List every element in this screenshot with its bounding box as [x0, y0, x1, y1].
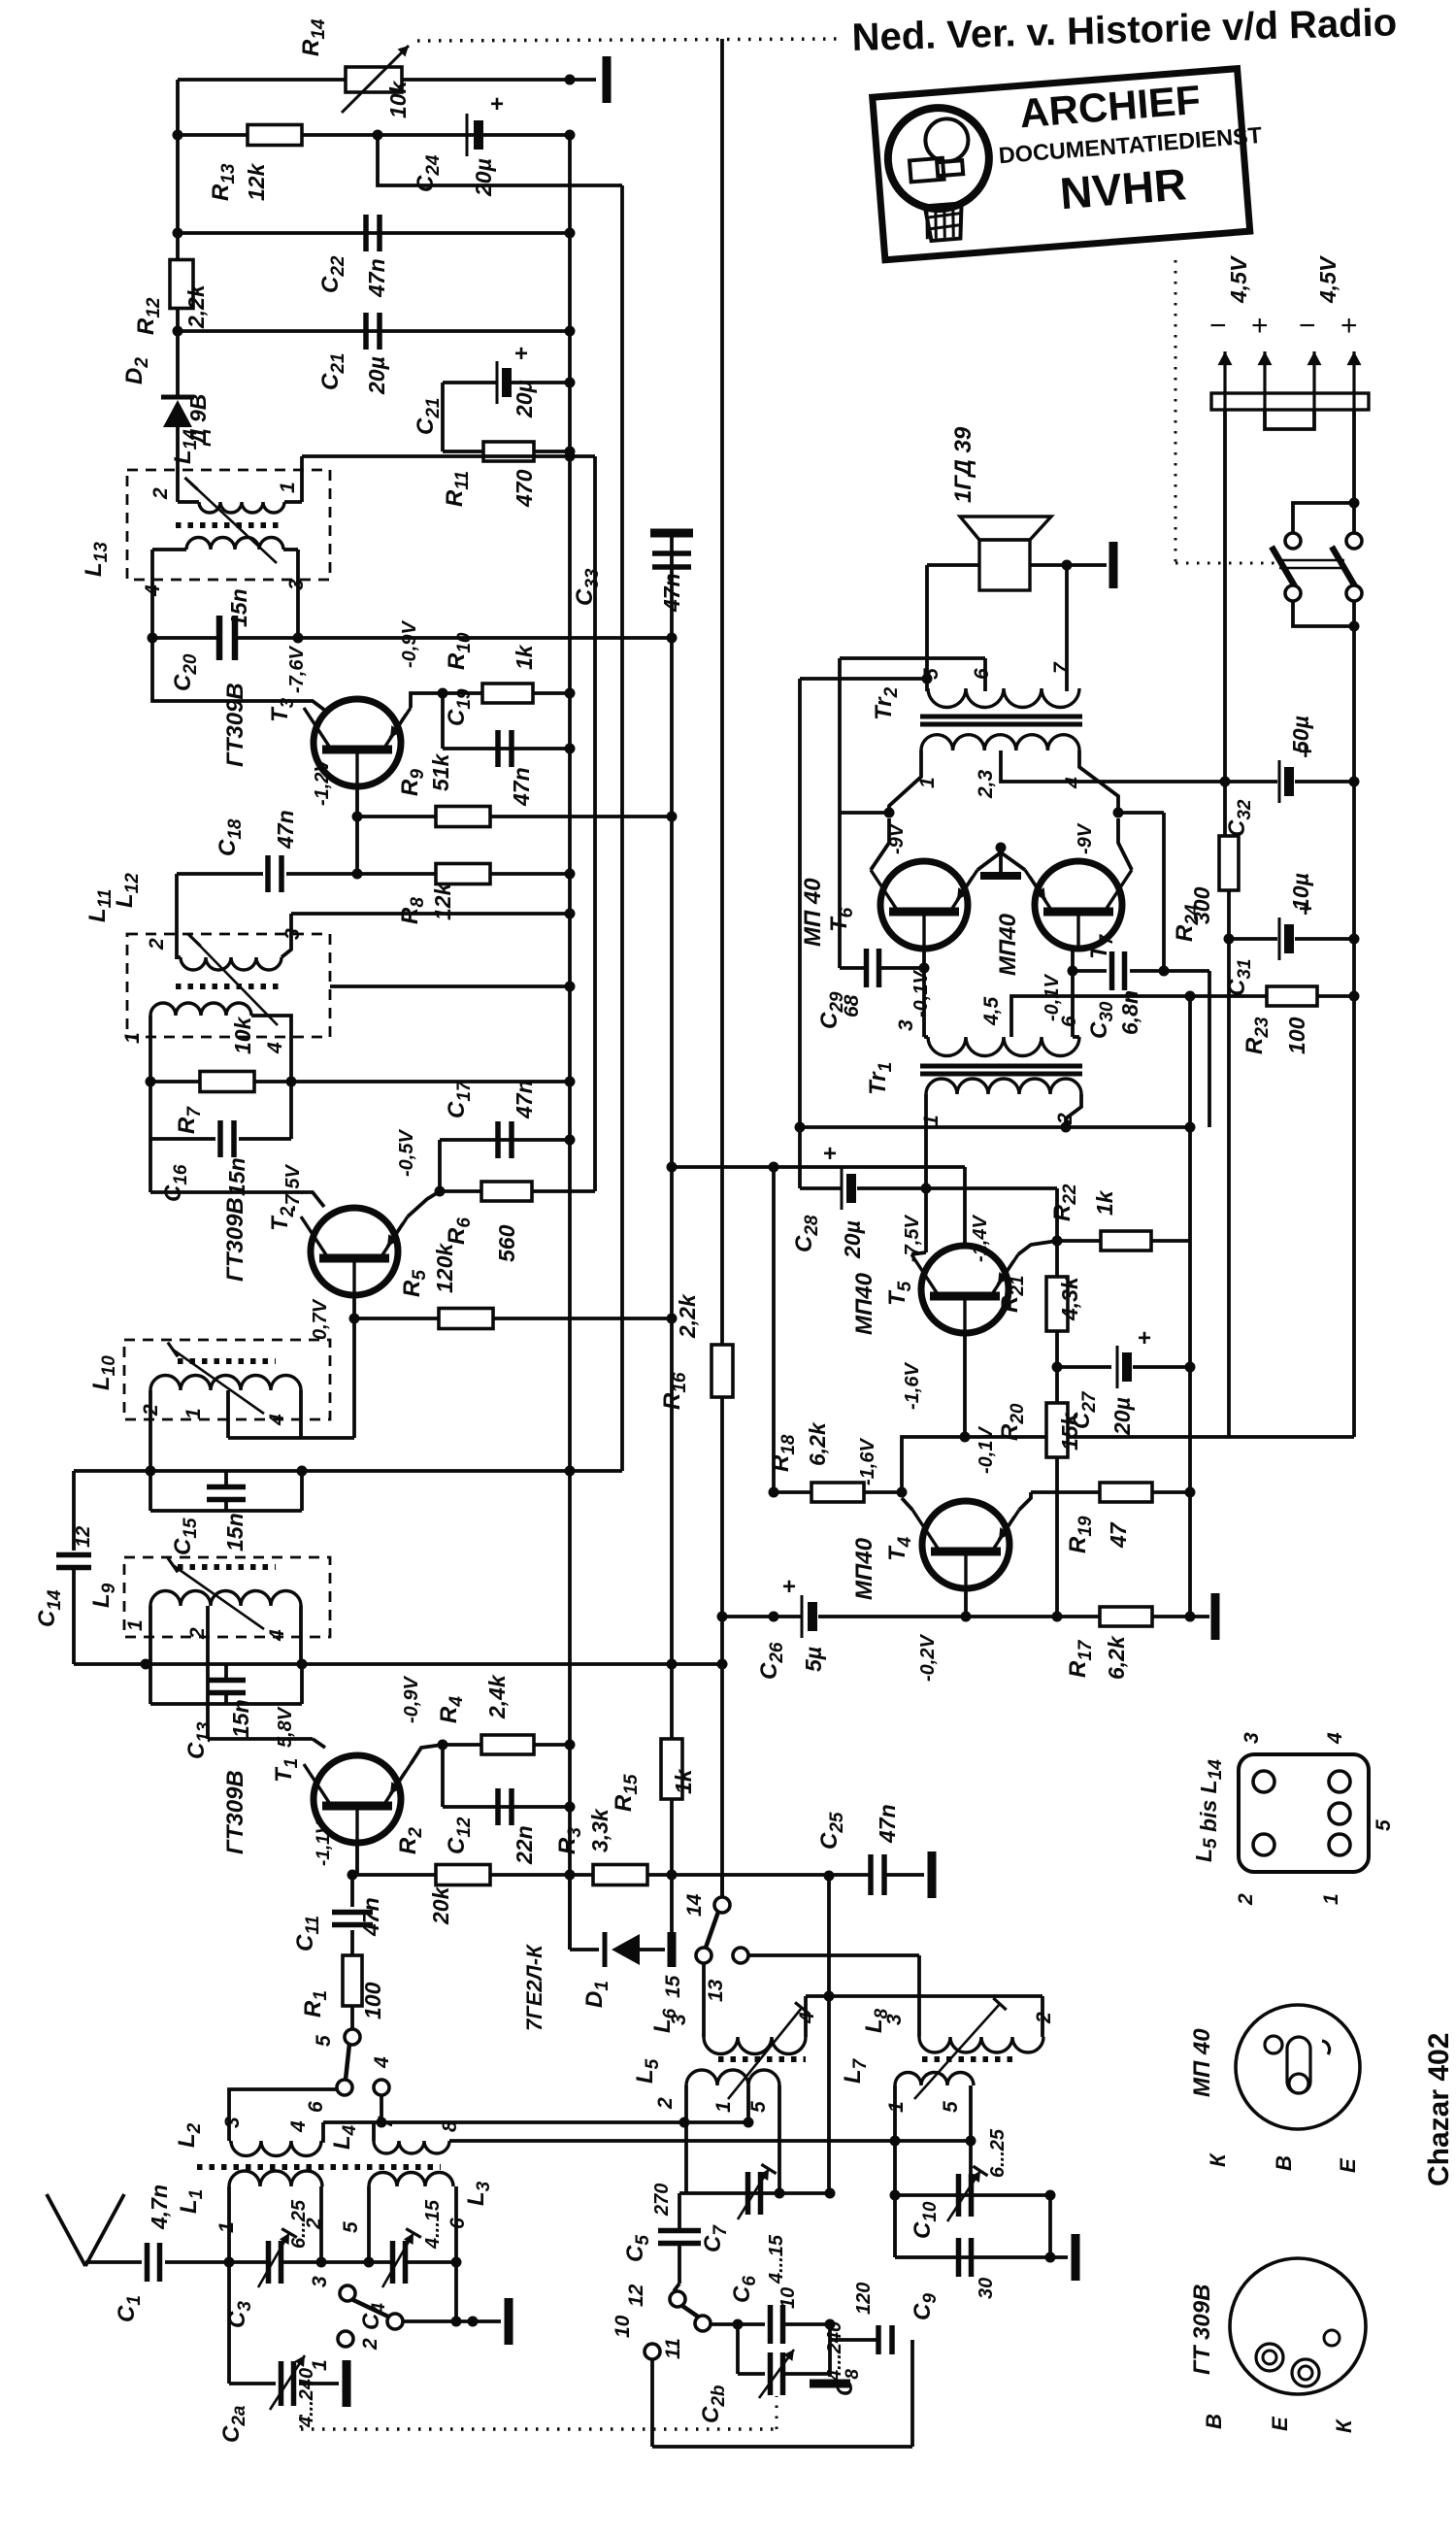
- svg-text:-0,9V: -0,9V: [401, 1676, 422, 1723]
- svg-text:+: +: [490, 91, 504, 117]
- svg-text:МП 40: МП 40: [1189, 2028, 1215, 2097]
- svg-text:4,5V: 4,5V: [1226, 255, 1251, 304]
- svg-text:300: 300: [1189, 886, 1214, 924]
- svg-text:2: 2: [1235, 1893, 1257, 1906]
- svg-text:4: 4: [266, 1629, 288, 1642]
- svg-text:7: 7: [1050, 661, 1073, 674]
- svg-text:5: 5: [747, 2101, 770, 2113]
- svg-text:6...25: 6...25: [987, 2128, 1009, 2178]
- svg-text:+: +: [514, 341, 528, 367]
- svg-text:51k: 51k: [428, 752, 453, 791]
- svg-text:-0,9V: -0,9V: [399, 620, 420, 668]
- svg-text:В: В: [1202, 2414, 1226, 2429]
- svg-text:2: 2: [654, 2097, 677, 2110]
- svg-text:4,5: 4,5: [980, 996, 1003, 1026]
- svg-text:К: К: [1332, 2418, 1356, 2433]
- svg-text:3: 3: [221, 2117, 244, 2128]
- svg-text:2: 2: [186, 1627, 209, 1640]
- svg-text:-0,1V: -0,1V: [976, 1426, 997, 1474]
- svg-text:6: 6: [1058, 1016, 1080, 1027]
- svg-text:-9V: -9V: [1075, 822, 1096, 854]
- svg-text:+: +: [1340, 310, 1358, 342]
- svg-text:4: 4: [1324, 1732, 1346, 1745]
- svg-text:20k: 20k: [428, 1885, 453, 1925]
- svg-text:1: 1: [712, 2101, 735, 2113]
- svg-text:2: 2: [146, 938, 168, 951]
- svg-text:ГТ309В: ГТ309В: [222, 683, 248, 767]
- svg-text:15n: 15n: [228, 1699, 253, 1738]
- svg-text:100: 100: [1284, 1017, 1309, 1054]
- svg-text:4: 4: [371, 2056, 393, 2069]
- svg-text:3: 3: [668, 2014, 690, 2025]
- svg-text:10: 10: [778, 2287, 799, 2309]
- svg-text:ГТ309В: ГТ309В: [222, 1770, 248, 1854]
- svg-text:4...15: 4...15: [766, 2234, 787, 2285]
- svg-text:6,2k: 6,2k: [805, 1421, 830, 1466]
- svg-text:4,3k: 4,3k: [1057, 1276, 1082, 1321]
- svg-text:3: 3: [281, 928, 304, 940]
- svg-text:3: 3: [895, 1019, 917, 1031]
- svg-text:NVHR: NVHR: [1058, 158, 1188, 218]
- svg-text:1ГД 39: 1ГД 39: [950, 426, 976, 503]
- svg-text:47: 47: [1106, 1521, 1131, 1549]
- svg-text:20µ: 20µ: [471, 158, 496, 197]
- svg-text:4...15: 4...15: [422, 2199, 444, 2250]
- svg-text:ГТ 309В: ГТ 309В: [1189, 2285, 1215, 2375]
- svg-text:20µ: 20µ: [512, 380, 537, 418]
- svg-text:4: 4: [264, 1042, 286, 1054]
- svg-text:560: 560: [494, 1224, 519, 1262]
- svg-text:4,7n: 4,7n: [147, 2185, 172, 2230]
- svg-text:1k: 1k: [512, 644, 537, 670]
- svg-text:7ГЕ2Л-К: 7ГЕ2Л-К: [522, 1944, 546, 2031]
- svg-text:-7,6V: -7,6V: [286, 646, 308, 693]
- svg-text:10: 10: [612, 2315, 634, 2338]
- svg-text:22n: 22n: [512, 1825, 537, 1865]
- svg-text:МП 40: МП 40: [800, 878, 826, 947]
- svg-text:-0,2V: -0,2V: [917, 1634, 939, 1682]
- svg-text:4: 4: [142, 584, 164, 597]
- svg-text:4: 4: [266, 1414, 288, 1426]
- svg-text:−: −: [1299, 310, 1316, 342]
- svg-text:1: 1: [121, 1032, 144, 1044]
- svg-text:20µ: 20µ: [1109, 1397, 1135, 1436]
- svg-text:1: 1: [182, 1408, 205, 1419]
- svg-text:47n: 47n: [659, 573, 684, 613]
- svg-text:12: 12: [73, 1526, 94, 1548]
- svg-text:-1,1V: -1,1V: [314, 1820, 334, 1866]
- svg-text:1: 1: [215, 2221, 238, 2233]
- svg-text:6: 6: [305, 2101, 327, 2113]
- svg-text:-0,1V: -0,1V: [910, 970, 932, 1017]
- svg-text:К: К: [1206, 2152, 1230, 2167]
- svg-text:+: +: [782, 1574, 796, 1600]
- svg-text:270: 270: [651, 2184, 673, 2217]
- svg-text:47n: 47n: [358, 1897, 383, 1937]
- svg-text:2,2k: 2,2k: [183, 284, 209, 329]
- svg-text:47n: 47n: [875, 1804, 900, 1844]
- svg-text:47n: 47n: [273, 810, 298, 850]
- svg-text:-1,6V: -1,6V: [857, 1438, 878, 1485]
- svg-text:6...25: 6...25: [288, 2199, 310, 2249]
- svg-text:10k: 10k: [385, 80, 411, 118]
- svg-text:-1,2V: -1,2V: [312, 758, 333, 806]
- svg-text:20µ: 20µ: [364, 356, 389, 395]
- svg-text:10µ: 10µ: [1288, 873, 1313, 911]
- svg-text:3: 3: [883, 2014, 906, 2025]
- svg-text:5: 5: [920, 668, 943, 680]
- svg-text:5: 5: [340, 2221, 362, 2233]
- svg-text:2,2k: 2,2k: [675, 1293, 700, 1339]
- svg-text:2,4k: 2,4k: [484, 1674, 510, 1719]
- svg-text:10k: 10k: [230, 1016, 255, 1054]
- svg-text:3: 3: [285, 579, 308, 590]
- svg-text:15n: 15n: [222, 1513, 248, 1551]
- svg-text:15: 15: [662, 1975, 684, 1998]
- svg-text:15n: 15n: [226, 588, 251, 627]
- svg-text:4...240: 4...240: [296, 2368, 317, 2428]
- svg-text:5: 5: [1373, 1819, 1395, 1831]
- svg-text:Е: Е: [1336, 2157, 1360, 2173]
- svg-text:МП40: МП40: [995, 913, 1021, 976]
- svg-text:120k: 120k: [432, 1243, 457, 1293]
- svg-text:2: 2: [149, 487, 172, 500]
- svg-text:1: 1: [124, 1619, 147, 1631]
- svg-text:6,2k: 6,2k: [1104, 1635, 1129, 1680]
- svg-text:4,5V: 4,5V: [1315, 255, 1340, 304]
- svg-text:1k: 1k: [1092, 1189, 1117, 1216]
- svg-text:12: 12: [625, 2284, 647, 2307]
- svg-text:100: 100: [360, 1982, 385, 2019]
- svg-text:−: −: [1209, 310, 1227, 342]
- svg-text:5µ: 5µ: [801, 1647, 826, 1672]
- svg-text:13: 13: [705, 1979, 727, 2002]
- svg-text:-0,5V: -0,5V: [396, 1129, 417, 1177]
- svg-text:20µ: 20µ: [840, 1220, 865, 1259]
- svg-text:+: +: [1251, 310, 1269, 342]
- svg-text:47n: 47n: [512, 1080, 537, 1119]
- svg-text:5: 5: [313, 2035, 335, 2047]
- svg-text:50µ: 50µ: [1288, 716, 1313, 753]
- svg-text:1: 1: [277, 482, 299, 493]
- svg-text:2,3: 2,3: [975, 769, 997, 799]
- svg-text:+: +: [823, 1141, 837, 1167]
- svg-text:Е: Е: [1268, 2416, 1292, 2431]
- svg-text:68: 68: [841, 994, 863, 1017]
- svg-text:15n: 15n: [224, 1157, 249, 1196]
- svg-text:120: 120: [853, 2283, 875, 2315]
- svg-text:+: +: [1138, 1325, 1151, 1351]
- svg-text:470: 470: [512, 469, 537, 508]
- svg-text:5: 5: [940, 2101, 962, 2113]
- svg-text:47n: 47n: [509, 767, 534, 807]
- svg-text:3: 3: [1241, 1732, 1263, 1744]
- svg-text:4: 4: [287, 2120, 310, 2133]
- svg-text:Chazar 402: Chazar 402: [1423, 2033, 1455, 2186]
- svg-text:5,8V: 5,8V: [275, 1706, 296, 1748]
- svg-text:11: 11: [662, 2338, 684, 2359]
- svg-text:2: 2: [1033, 2012, 1055, 2024]
- svg-text:МП40: МП40: [851, 1272, 877, 1335]
- svg-text:47n: 47n: [364, 258, 389, 298]
- svg-text:3: 3: [309, 2276, 331, 2287]
- svg-text:-7,5V: -7,5V: [282, 1164, 304, 1212]
- svg-text:3,3k: 3,3k: [587, 1808, 612, 1852]
- svg-text:-1,6V: -1,6V: [902, 1362, 923, 1410]
- svg-text:ГТ309В: ГТ309В: [222, 1197, 248, 1282]
- svg-text:12k: 12k: [244, 162, 269, 201]
- svg-text:1: 1: [1320, 1893, 1342, 1905]
- svg-text:0,7V: 0,7V: [310, 1298, 331, 1340]
- svg-text:МП40: МП40: [851, 1537, 877, 1600]
- svg-text:14: 14: [683, 1893, 706, 1917]
- svg-text:2: 2: [359, 2338, 381, 2351]
- svg-text:1k: 1k: [671, 1768, 696, 1794]
- svg-text:30: 30: [976, 2278, 997, 2299]
- svg-text:6: 6: [971, 668, 993, 680]
- svg-text:В: В: [1272, 2155, 1296, 2171]
- svg-text:1: 1: [920, 1115, 943, 1126]
